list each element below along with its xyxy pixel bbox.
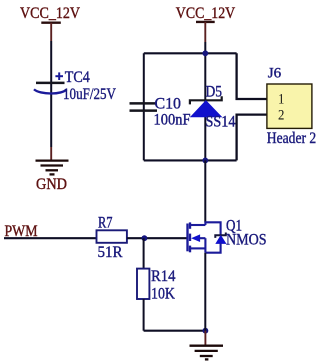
svg-text:TC4: TC4 (65, 69, 90, 86)
label J6 (268, 66, 282, 82)
label 51R (98, 244, 123, 261)
power VCC_12V mid label (176, 5, 236, 22)
junction gate node (142, 235, 148, 241)
svg-text:R14: R14 (151, 268, 176, 285)
resistor R7 (97, 230, 127, 243)
pin 1 number (278, 91, 284, 107)
svg-text:10uF/25V: 10uF/25V (63, 86, 116, 103)
label Q1 (226, 217, 242, 234)
wire source to bottom node (204, 253, 206, 331)
power VCC_12V left label (20, 5, 80, 22)
pin 2 number (278, 107, 284, 123)
connector J6 body (267, 84, 312, 128)
label GND (36, 176, 67, 193)
svg-text:10K: 10K (151, 285, 175, 302)
capacitor C10 (130, 103, 158, 110)
svg-text:C10: C10 (155, 95, 182, 112)
diode D5 (190, 96, 222, 117)
wire PWM to R7 (4, 237, 97, 239)
junction top node (202, 50, 208, 56)
svg-text:2: 2 (278, 107, 284, 123)
label SS14 (206, 114, 236, 131)
power VCC_12V left pin stub (50, 23, 52, 41)
wire left branch through C10 (143, 53, 145, 160)
label R7 (98, 215, 113, 232)
label NMOS (226, 232, 267, 249)
svg-text:100nF: 100nF (154, 111, 191, 128)
label Header 2 (267, 130, 316, 147)
power VCC_12V mid pin stub (204, 22, 206, 42)
wire right branch lower from pin 2 (237, 115, 267, 161)
wire drain stub (204, 160, 206, 222)
resistor R14 (137, 269, 149, 299)
wire top rail (144, 52, 237, 54)
wire R14 to bottom wire (143, 299, 145, 331)
wire mid branch through D5 (204, 53, 206, 160)
wire right branch upper to pin 1 (237, 53, 267, 99)
svg-text:D5: D5 (206, 83, 223, 100)
svg-text:1: 1 (278, 91, 284, 107)
ground GND left symbol (36, 161, 69, 175)
label 100nF (154, 111, 191, 128)
svg-text:Header 2: Header 2 (267, 130, 316, 147)
label C10 (155, 95, 182, 112)
label TC4 (65, 69, 90, 86)
wire bottom rail (144, 159, 237, 161)
net label PWM (5, 223, 38, 240)
ground bottom pin stub (204, 331, 206, 345)
svg-text:GND: GND (36, 176, 67, 193)
svg-text:VCC_12V: VCC_12V (20, 5, 80, 22)
power VCC_12V mid bar (196, 21, 215, 23)
wire VCC stub to top node (204, 42, 206, 53)
label 10K (151, 285, 175, 302)
transistor Q1 (188, 222, 226, 252)
wire R7 to gate (127, 237, 188, 239)
power VCC_12V left bar (41, 22, 61, 24)
svg-text:NMOS: NMOS (226, 232, 267, 249)
wire bottom to source node (144, 330, 206, 332)
wire gate node down to R14 (143, 238, 145, 268)
svg-text:J6: J6 (268, 66, 282, 82)
svg-text:51R: 51R (98, 244, 123, 261)
svg-text:R7: R7 (98, 215, 113, 232)
label 10uF/25V (63, 86, 116, 103)
label D5 (206, 83, 223, 100)
capacitor TC4 (34, 72, 67, 93)
wire VCC to TC4 to GND (50, 41, 52, 147)
label R14 (151, 268, 176, 285)
ground GND left pin stub (50, 147, 52, 160)
junction source node (203, 328, 209, 334)
svg-text:VCC_12V: VCC_12V (176, 5, 236, 22)
ground bottom symbol (190, 346, 224, 360)
svg-text:SS14: SS14 (206, 114, 236, 131)
junction mid node (202, 158, 208, 164)
